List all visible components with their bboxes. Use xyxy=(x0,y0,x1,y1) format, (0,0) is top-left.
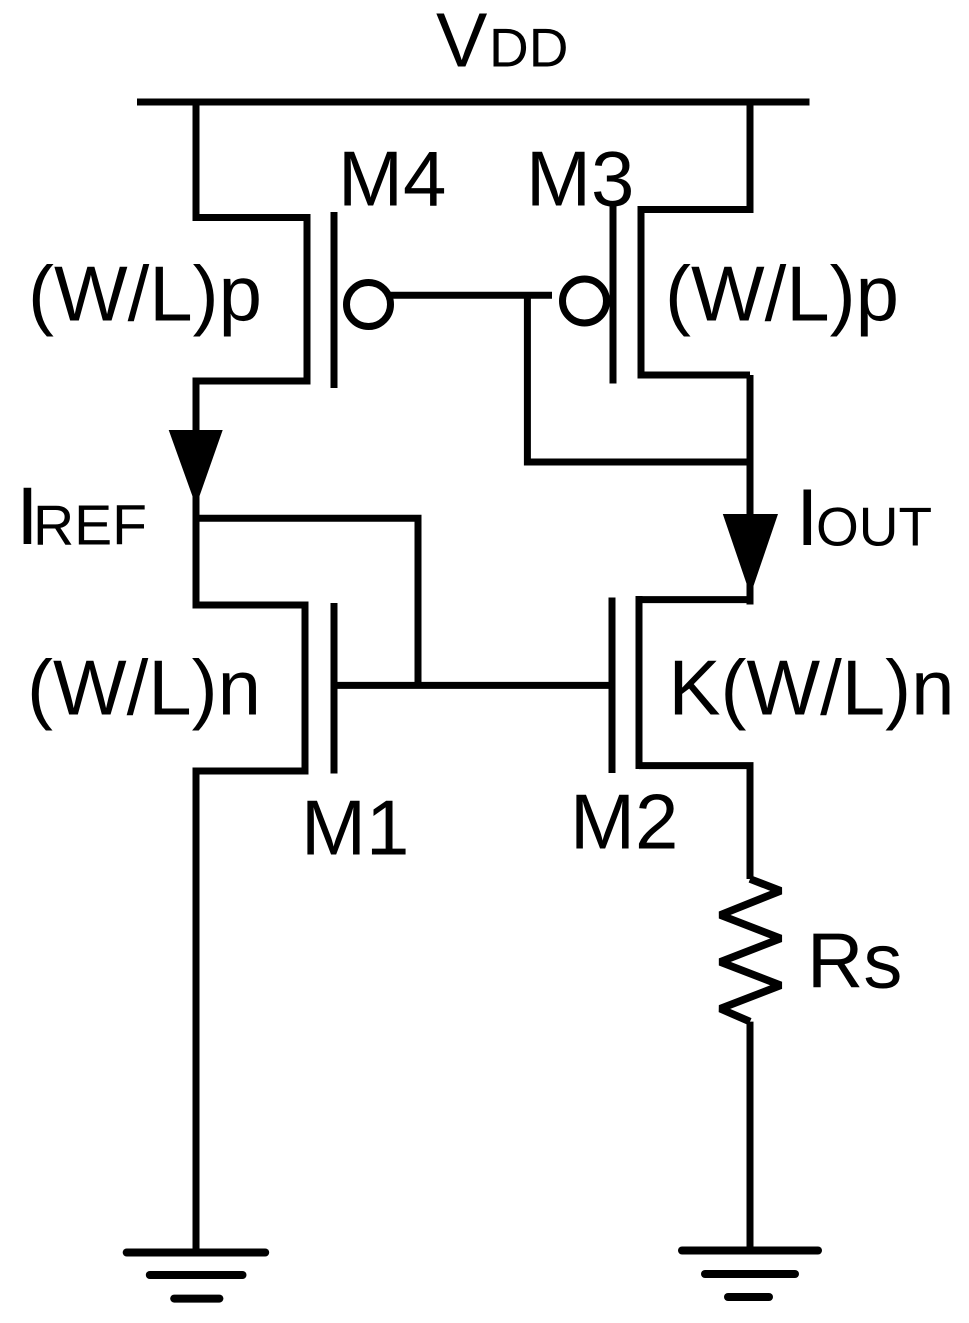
svg-text:M2: M2 xyxy=(570,778,678,866)
wire M3 diode connection (gate node down and right to drain) xyxy=(527,295,753,462)
wire M2 drain stub xyxy=(639,596,750,603)
wire M3 drain stub xyxy=(641,372,750,379)
current arrow IOUT xyxy=(723,514,778,595)
transistor M1 gate bar xyxy=(331,603,338,774)
wire right branch from VDD rail down to M3 source xyxy=(641,99,750,210)
svg-text:M1: M1 xyxy=(301,784,409,872)
transistor M2 gate bar xyxy=(609,598,616,774)
svg-text:OUT: OUT xyxy=(816,496,932,558)
transistor M3 channel bar xyxy=(638,206,645,379)
svg-text:REF: REF xyxy=(33,494,147,558)
svg-text:(W/L)p: (W/L)p xyxy=(665,250,899,338)
wire IREF branch vertical through arrow down to node xyxy=(193,430,200,522)
svg-text:V: V xyxy=(436,0,488,84)
VDD rail xyxy=(137,99,810,106)
current arrow IREF xyxy=(169,430,223,506)
resistor Rs zigzag xyxy=(720,879,781,1022)
svg-text:(W/L)p: (W/L)p xyxy=(28,250,262,338)
transistor M2 channel bar xyxy=(636,596,643,769)
ground left xyxy=(127,1249,266,1257)
transistor M4 channel bar xyxy=(304,214,311,385)
wire M1 source stub down to ground xyxy=(196,771,305,1253)
wire M1 drain from node down to channel xyxy=(196,515,305,605)
transistor M3 PMOS bubble xyxy=(563,279,607,323)
transistor M4 PMOS bubble xyxy=(347,283,391,327)
svg-text:M4: M4 xyxy=(338,135,446,223)
transistor M1 channel bar xyxy=(302,602,309,775)
wire M2 source stub down to resistor xyxy=(639,766,750,879)
wire IREF node to M1 diode connection xyxy=(193,518,419,685)
svg-text:K(W/L)n: K(W/L)n xyxy=(669,644,955,732)
wire gate line M1 to M2 xyxy=(334,682,612,689)
wire gate-to-gate between M4 and M3 bubbles xyxy=(368,292,552,299)
transistor M4 gate bar xyxy=(331,212,338,388)
svg-text:DD: DD xyxy=(489,17,568,79)
wire M4 drain stub down to IREF arrow xyxy=(196,381,307,434)
svg-text:Rs: Rs xyxy=(807,916,902,1004)
svg-text:(W/L)n: (W/L)n xyxy=(27,644,261,732)
wire left branch from VDD rail down to M4 source xyxy=(196,99,307,218)
svg-text:M3: M3 xyxy=(526,135,634,223)
ground right xyxy=(682,1247,818,1255)
wire resistor to right ground xyxy=(747,1022,754,1251)
wire IOUT branch vertical from M3 drain to M2 drain xyxy=(747,375,754,605)
transistor M3 gate bar xyxy=(610,206,617,384)
